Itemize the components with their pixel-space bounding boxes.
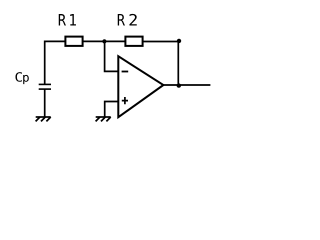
wire capacitor to ground — [44, 89, 46, 117]
capacitor Cp — [39, 84, 51, 89]
resistor R1 — [65, 37, 82, 46]
ground (left, under Cp) — [36, 117, 51, 121]
node junction (feedback top) — [177, 39, 181, 43]
ground (right, under op-amp + input) — [96, 117, 111, 121]
wire R1 to R2 — [83, 40, 126, 42]
node junction (output) — [177, 83, 181, 87]
wire non-inverting input to ground — [105, 102, 119, 118]
op-amp plus sign — [122, 97, 128, 104]
label R1 — [59, 14, 76, 26]
wire junction down to inverting input — [105, 41, 119, 71]
wire output — [163, 84, 210, 86]
wire R2 to top-right junction — [143, 41, 179, 43]
wire input corner to R1 — [45, 41, 65, 84]
op-amp minus sign — [122, 71, 129, 73]
op-amp U1 — [118, 56, 163, 117]
label Cp — [15, 72, 28, 84]
resistor R2 — [125, 37, 142, 46]
label R2 — [118, 14, 137, 26]
node junction (R1/R2, inverting input) — [102, 39, 106, 43]
wire feedback vertical — [177, 42, 179, 86]
